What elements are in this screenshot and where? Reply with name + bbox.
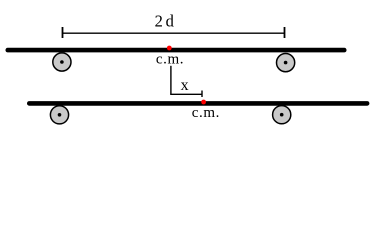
svg-text:c.m.: c.m. [192, 105, 220, 121]
svg-text:c.m.: c.m. [156, 51, 184, 67]
svg-text:2d: 2d [155, 12, 177, 31]
svg-text:x: x [181, 77, 189, 94]
